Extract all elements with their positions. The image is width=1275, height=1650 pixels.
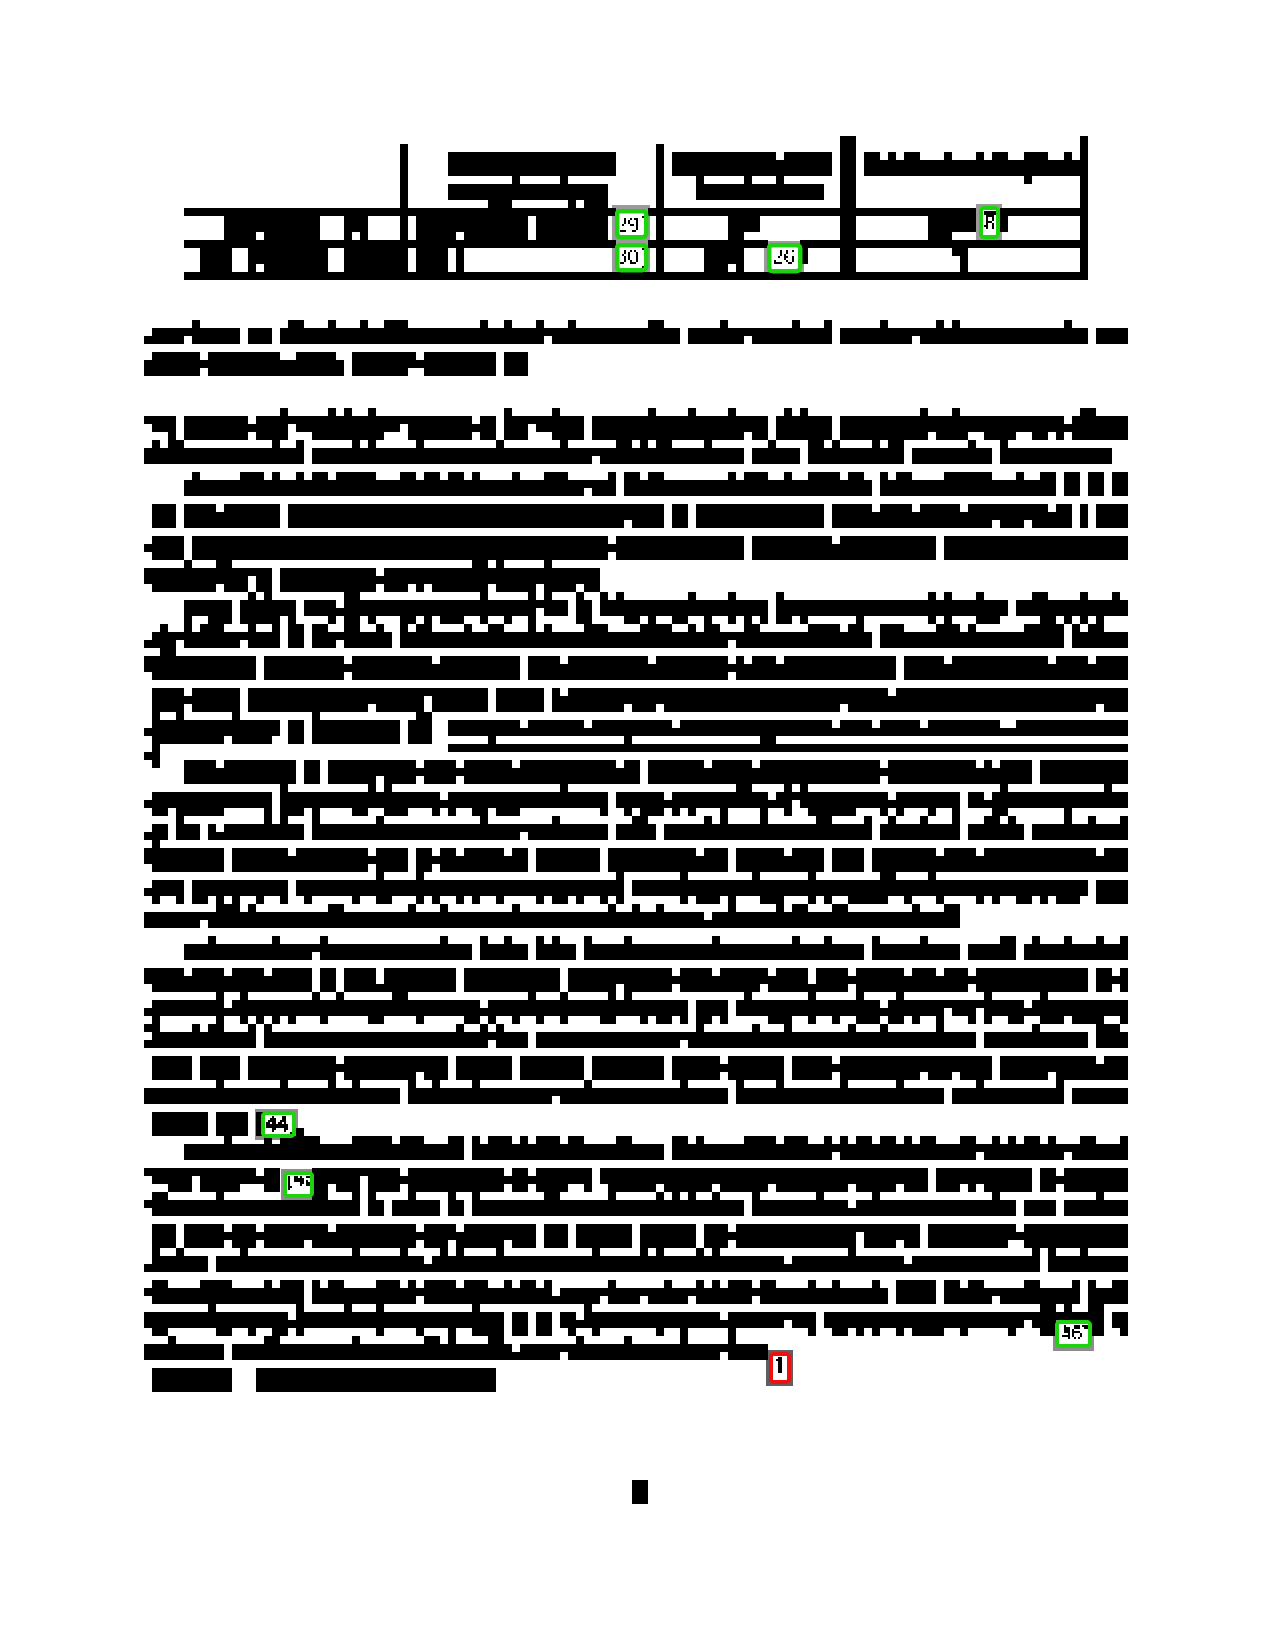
citation link frames [617,211,646,237]
page ink [144,136,1128,1504]
link annotation interiors [617,211,646,237]
link annotation gray pads [612,205,650,249]
citation digits [620,216,644,232]
